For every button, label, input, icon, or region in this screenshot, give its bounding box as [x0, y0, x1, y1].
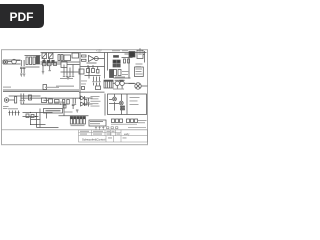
value label U4 a [90, 121, 103, 122]
transistor Q1 [12, 59, 17, 64]
title block cell text f [112, 130, 115, 133]
resistor R32 [82, 87, 85, 90]
ground lower mid [76, 110, 79, 112]
title block cell text b [93, 130, 103, 133]
capacitor C41 [49, 66, 51, 71]
resistor R21 [43, 62, 47, 65]
value label dash right2 [138, 121, 145, 124]
op-amp U1 [64, 55, 71, 61]
node H [30, 124, 31, 125]
value label mid-left b [81, 83, 86, 86]
diode D7 [81, 102, 85, 106]
value label block r1 [130, 96, 140, 99]
drawing frame bottom line [2, 129, 148, 131]
relay K1 coil [114, 56, 119, 58]
capacitor C39 [54, 63, 57, 66]
resistor R28 [107, 127, 109, 129]
capacitor C28 [80, 117, 82, 125]
value label amp [55, 102, 65, 103]
capacitor C26 polarity [74, 117, 76, 120]
wire lower link [41, 100, 53, 118]
wire rail drop A [104, 53, 106, 79]
resistor R26 [67, 100, 70, 105]
trimmer RV2 [42, 53, 47, 59]
wire output vertical [104, 94, 106, 116]
wire mid bus [61, 71, 79, 73]
capacitor C21 [8, 111, 10, 116]
value label block r2 [130, 100, 138, 103]
value label filter caps [71, 125, 85, 126]
capacitor C8 [128, 59, 130, 63]
capacitor C45 [102, 126, 104, 129]
jack J1 [4, 60, 8, 64]
transistor Q4 leads [120, 102, 122, 104]
IC U7 [44, 109, 63, 114]
title block cell text i [108, 137, 112, 140]
capacitor C35 [120, 119, 123, 123]
resistor R25 [63, 100, 65, 104]
wire speaker feed [129, 84, 148, 87]
speaker LS1 [135, 83, 141, 89]
resistor R8 [82, 55, 87, 57]
page border [2, 50, 148, 145]
jack J2 [4, 98, 8, 102]
wire power rail B [21, 103, 69, 105]
value label bus3 [45, 87, 59, 88]
node A [30, 112, 31, 113]
IC U7 label [46, 110, 61, 112]
wire lower mesh [23, 109, 41, 123]
wire mid right rail [81, 63, 105, 67]
resistor R17 [49, 99, 53, 103]
capacitor C3 [43, 60, 45, 62]
value label list R2 [136, 66, 142, 67]
value label bus [56, 86, 74, 87]
capacitor C34 [116, 119, 119, 123]
transistor Q3 leads [114, 98, 116, 100]
capacitor C38 [135, 119, 138, 123]
capacitor C36 [127, 119, 130, 123]
svg-text:early: early [124, 133, 130, 136]
value label mid-left [81, 80, 87, 83]
node E [60, 104, 61, 105]
value label row top-right b [122, 49, 128, 52]
value label C42 [65, 112, 73, 113]
connector P2 [104, 81, 113, 88]
capacitor C16 [20, 94, 22, 105]
capacitor C42 [63, 105, 66, 108]
wire tone row [41, 63, 80, 66]
value label relay rows b [122, 73, 128, 76]
wire right drop [114, 58, 131, 79]
capacitor C46 [92, 77, 94, 86]
title block [79, 130, 148, 142]
value label out list3 [91, 100, 101, 103]
capacitor C27 polarity [77, 117, 79, 120]
transformer T1 core [113, 80, 135, 83]
capacitor C2 [23, 60, 26, 73]
wire Q3 Q4 leads [109, 94, 122, 115]
title block cell text e [107, 130, 111, 133]
capacitor C47 [95, 77, 97, 86]
transformer T1 secondary [120, 81, 124, 85]
capacitor C10 [66, 72, 68, 76]
connector P2 header [104, 80, 113, 81]
wire U7 vertical [63, 105, 65, 116]
resistor R13 [79, 69, 84, 74]
node I [36, 124, 37, 125]
capacitor C43 [95, 126, 97, 129]
wire mid vertical [88, 67, 90, 79]
capacitor C14 [92, 69, 95, 73]
title block cell text d [93, 133, 102, 136]
IC U6 [61, 62, 67, 68]
wire filter rail [59, 115, 89, 117]
value label out list4 [91, 102, 99, 105]
value label list R [136, 64, 143, 65]
wire input pair [3, 60, 21, 64]
capacitor C40 [42, 66, 44, 74]
capacitor C48 [98, 77, 100, 86]
wire trimmer drops [44, 59, 50, 63]
capacitor C9 [63, 72, 65, 76]
resistor R22 [48, 62, 52, 65]
capacitor C1 [20, 60, 23, 73]
transistor Q4 [119, 101, 123, 105]
ground [20, 74, 22, 76]
IC U4 [89, 120, 106, 126]
diode D4 [117, 64, 120, 67]
capacitor C24 [17, 111, 19, 116]
transformer T1 [115, 81, 119, 85]
title block cell text h [117, 133, 121, 136]
value label list R4 [136, 71, 142, 72]
value label caps row mid [60, 78, 73, 79]
PDF badge [0, 4, 44, 28]
value label out list2 [91, 97, 99, 100]
wire transformer drop [117, 86, 122, 90]
title block cell text g [107, 133, 112, 136]
value label corner a [3, 105, 9, 108]
transistor Q3 [113, 97, 117, 101]
capacitor C33 [112, 119, 115, 123]
resistor R11 [118, 70, 121, 76]
value label small caps [8, 108, 18, 109]
capacitor C23 [14, 111, 16, 116]
node C [30, 98, 31, 99]
value label dash right1 [138, 119, 147, 122]
node B [35, 116, 36, 117]
jack J2 tip [6, 99, 7, 100]
wire J2 out [9, 96, 41, 100]
node F [79, 97, 81, 99]
capacitor C15 [97, 70, 100, 74]
resistor R2 [30, 57, 32, 65]
fuse F1 element [138, 48, 141, 54]
resistor R24 [31, 115, 34, 118]
resistor R16 [42, 98, 47, 103]
wire Q1 out [8, 61, 21, 62]
svg-text:+15V: +15V [96, 49, 102, 52]
resistor R7 [61, 55, 63, 61]
diode D2 [117, 60, 120, 63]
capacitor C29 polarity [83, 117, 85, 120]
amplifier block U5 [108, 94, 147, 115]
capacitor C44 [99, 126, 101, 129]
wire comp stubs [88, 65, 98, 70]
resistor R30 [116, 127, 118, 129]
wire top rail [41, 52, 147, 54]
value label block r3 [130, 103, 139, 106]
capacitor C49 [120, 80, 124, 82]
capacitor C20 [87, 98, 89, 106]
value label out list1 [91, 95, 100, 98]
fuse F1 holder [137, 50, 143, 58]
wire bus double upper [3, 90, 79, 92]
resistor R20 [121, 109, 125, 110]
op-amp U3 [89, 56, 95, 62]
trimmer RV2 wiper [42, 54, 46, 59]
value label dash row [128, 126, 146, 129]
wire opamp out [94, 58, 105, 60]
wire rail drop B [107, 53, 109, 71]
jack J1 tip [5, 61, 6, 62]
capacitor C7 [124, 59, 126, 63]
capacitor C17 [23, 94, 25, 105]
value label bus2 [3, 87, 11, 88]
node D [45, 98, 46, 99]
resistor R14 [15, 97, 17, 104]
IC U8 [135, 67, 144, 77]
wire section vertical [79, 53, 81, 93]
connector P2 pins [106, 81, 111, 88]
capacitor C26 [74, 117, 76, 125]
resistor R27 [84, 100, 87, 106]
resistor R6 [58, 55, 60, 61]
wire relay bus [122, 57, 133, 59]
title block cell text c [80, 133, 87, 136]
trimmer RV3 wiper [49, 54, 53, 59]
resistor R31 [96, 86, 101, 90]
ground mid [67, 77, 70, 79]
capacitor C22 [11, 111, 13, 116]
value label mid [115, 77, 125, 78]
value label xfrm [113, 89, 124, 90]
connector P1 [129, 52, 135, 58]
svg-text:PDF: PDF [10, 10, 34, 24]
wire bus drop [79, 92, 81, 98]
capacitor C29 [83, 117, 85, 125]
diode D6 [81, 96, 85, 100]
resistor R1 [26, 57, 28, 65]
capacitor C25 [70, 117, 72, 125]
value label caps row [111, 123, 137, 126]
capacitor C6 [110, 70, 114, 78]
node G [36, 116, 37, 117]
resistor R18 [55, 100, 60, 104]
capacitor C25 polarity [70, 117, 72, 120]
wire bus single [79, 91, 105, 93]
value label row top-right [112, 49, 120, 52]
capacitor C37 [131, 119, 134, 123]
value label corner b [3, 107, 8, 110]
transistor Q2 [94, 57, 98, 61]
wire diode out [85, 98, 93, 104]
diode D1 [113, 60, 116, 63]
wire power rail A [21, 97, 81, 99]
resistor R19 [121, 106, 125, 107]
diode D3 [113, 64, 116, 67]
value label U4 b [90, 123, 100, 124]
resistor R15 [29, 95, 32, 100]
op-amp U2 [72, 53, 79, 58]
resistor R10 [114, 70, 117, 76]
wire mesh extras [31, 113, 59, 128]
wire mid [41, 61, 80, 63]
resistor R23 [26, 114, 29, 118]
speaker LS1 cross [136, 84, 140, 88]
capacitor C12 [72, 72, 74, 76]
value label list R3 [136, 69, 143, 70]
trimmer RV3 [49, 53, 54, 59]
resistor R3 [33, 57, 35, 65]
capacitor C27 [77, 117, 79, 125]
capacitor C18 [72, 98, 75, 109]
svg-text:Subwoofer&Control: Subwoofer&Control [82, 137, 106, 141]
ground [23, 74, 25, 76]
title block cell text j [123, 137, 127, 140]
resistor R29 [111, 127, 113, 129]
wire cap stubs up [64, 65, 73, 73]
potentiometer RV1 [36, 56, 39, 64]
capacitor C28 polarity [80, 117, 82, 120]
value label list R5 [136, 74, 143, 75]
wire preamp rail [25, 56, 41, 68]
capacitor C5 [52, 60, 54, 62]
capacitor C13 [87, 69, 90, 73]
value label relay rows [122, 70, 129, 73]
value label out list5 [91, 105, 100, 108]
wire lower mid rail [85, 75, 101, 77]
resistor R12 [43, 85, 47, 90]
capacitor C19 [74, 98, 76, 104]
capacitor C4 [47, 60, 49, 62]
wire P1 feed [125, 51, 145, 63]
capacitor C11 [69, 72, 71, 76]
wire block divider [126, 94, 128, 115]
resistor R9 [82, 59, 87, 61]
title block cell text a [80, 130, 89, 133]
